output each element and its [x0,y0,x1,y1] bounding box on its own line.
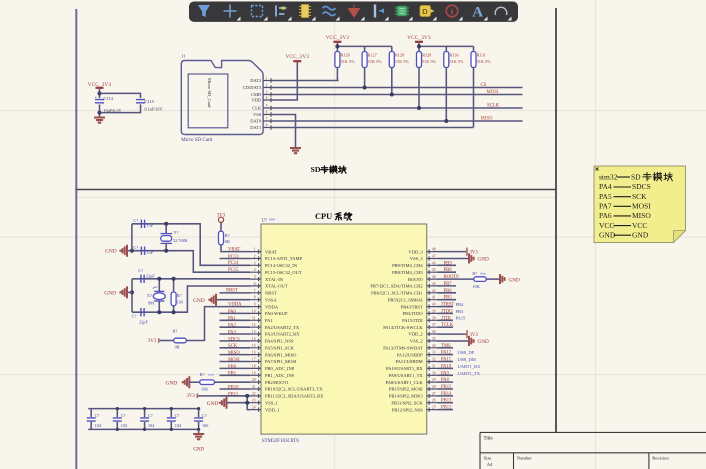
wire VDD_2 pin36 to 3V3 [438,333,467,335]
wire stub net TCLK [438,326,454,328]
svg-text:34: 34 [432,344,436,348]
svg-text:4: 4 [254,268,256,272]
wire stub net PB9 [438,264,457,266]
svg-text:VSS: VSS [253,112,262,117]
svg-text:PC14: PC14 [228,261,239,266]
toolbar icon D-box (yellow) [420,6,431,17]
svg-text:C?: C? [133,245,138,250]
wire stub net PB15 [438,388,454,390]
wire X? bottom stem [158,301,160,312]
svg-text:7: 7 [266,117,268,121]
svg-text:XTAL-OUT: XTAL-OUT [265,284,288,289]
toolbar icon info circle [446,5,458,17]
wire BOOT0 to R10K [438,278,474,280]
svg-text:PA3/USART2_RX: PA3/USART2_RX [265,332,300,337]
toolbar icon power port (red arrow) [349,5,360,18]
svg-text:Size: Size [484,456,492,461]
svg-text:VCC: VCC [599,221,614,230]
capacitor C? 104 [87,418,96,421]
capacitor C? 22pF (bottom) [141,308,144,316]
svg-text:16: 16 [252,351,256,355]
svg-text:PB0: PB0 [228,365,237,370]
junction cap4 bottom [170,428,173,431]
svg-text:stm32: stm32 [599,173,618,182]
wire R1M top stem [173,279,175,292]
svg-text:PB5/I2C1_SMBAI: PB5/I2C1_SMBAI [388,297,423,302]
wire 3V3 to VDD_1 pin 24 [198,396,250,410]
wire stub net SCK (pin 15) [220,347,251,349]
power port VCC_3V3 (at C114) [96,87,104,89]
toolbar icon filter funnel [198,5,210,17]
connector J1 micro SD card outline [181,61,263,135]
svg-text:27: 27 [432,392,436,396]
ground at 32.768K osc [120,245,127,257]
svg-text:SCLK: SCLK [487,103,500,108]
svg-text:GND: GND [599,230,616,239]
svg-text:51K 5%: 51K 5% [341,59,355,64]
svg-text:51K 5%: 51K 5% [450,59,464,64]
wire stub net PB12 [438,409,454,411]
capacitor C? 15P (top) [141,220,144,228]
junction cap2 bottom [116,428,119,431]
svg-text:24: 24 [252,406,256,410]
svg-text:PA5/SPI1_SCK: PA5/SPI1_SCK [265,346,295,351]
svg-text:PC15-OSC32_OUT: PC15-OSC32_OUT [265,270,302,275]
svg-text:DAT1: DAT1 [250,125,261,130]
wire R129 bottom to net [418,68,420,109]
junction R130 on signal wire [444,119,448,123]
ground at VSS_3 [469,254,474,264]
junction osc2 gnd node [130,290,134,294]
wire cap3 bottom stem [144,422,146,429]
svg-text:36: 36 [432,330,436,334]
svg-text:1: 1 [266,77,268,81]
svg-text:R129: R129 [422,53,431,58]
svg-text:MOSI: MOSI [632,202,651,211]
wire rail2 top R129-R131 [419,45,474,47]
svg-text:+: + [95,94,98,99]
wire stub net JTDO [438,312,454,314]
svg-text:VBAT: VBAT [265,249,277,254]
svg-text:VCC_3V3: VCC_3V3 [88,82,112,88]
svg-text:10: 10 [252,309,256,313]
junction C114 bottom node [98,111,102,115]
svg-text:44: 44 [432,275,436,279]
svg-text:15: 15 [252,344,256,348]
wire cap3 top stem [144,409,146,417]
wire stub net NRST (pin 7) [220,292,251,294]
wire net SCLK (CLK) [273,107,523,109]
capacitor C115 plates [136,100,145,103]
svg-text:GND: GND [104,290,116,296]
wire to gnd osc1 [128,250,132,252]
wire stub net PA12 [438,354,454,356]
svg-text:6: 6 [254,282,256,286]
svg-text:R128: R128 [395,53,404,58]
sheet border left edge [75,9,77,469]
capacitor C? 104 [113,418,122,421]
svg-text:TCLK: TCLK [441,323,454,328]
wire R131 top stub [473,46,475,51]
svg-text:7: 7 [254,289,256,293]
svg-text:SDCS: SDCS [228,337,240,342]
svg-text:PA5: PA5 [599,192,612,201]
ground under C114 [94,118,105,123]
svg-text:PA10: PA10 [441,364,452,369]
svg-text:SCK: SCK [632,192,647,201]
toolbar icon selection rectangle [252,6,263,17]
svg-text:Micro SD_Card: Micro SD_Card [207,78,212,108]
svg-text:8M: 8M [148,301,154,306]
wire Y? top stem [165,224,167,233]
svg-text:PB1_ADC_IN9: PB1_ADC_IN9 [265,373,295,378]
junction R129 on signal wire [417,106,421,110]
toolbar icon arc [495,7,507,15]
wire stub net PA2 (pin 12) [220,326,251,328]
svg-text:43: 43 [432,282,436,286]
svg-text:MISO: MISO [228,351,240,356]
svg-text:1: 1 [254,248,256,252]
svg-text:C?: C? [133,218,138,223]
junction osc2 top at R1M [172,277,176,281]
sticky note annotation box [594,166,686,243]
svg-text:32.768K: 32.768K [173,238,189,243]
ground under cap bank [193,434,204,439]
svg-text:SDCS: SDCS [632,182,651,191]
svg-text:PB0_ADC_IN8: PB0_ADC_IN8 [265,366,295,371]
svg-text:PB6/I2C1_SCL/TIM4_CH1: PB6/I2C1_SCL/TIM4_CH1 [371,291,423,296]
svg-text:PA13/JTMS-SWDAT: PA13/JTMS-SWDAT [383,346,423,351]
junction cap5 top [197,407,200,410]
wire VSSA pin 8 to ground [217,299,251,301]
svg-text:PA0-WKUP: PA0-WKUP [265,311,288,316]
svg-text:PB5: PB5 [444,296,453,301]
resistor R? 1M body [171,292,176,306]
svg-text:R?: R? [177,293,182,298]
wire R130 top stub [445,46,447,51]
wire cap bank bottom rail [88,428,198,430]
svg-text:PA15/JTDI: PA15/JTDI [402,318,423,323]
svg-text:GND: GND [478,257,489,263]
svg-text:R?: R? [173,329,178,334]
svg-text:C114: C114 [104,96,114,101]
svg-text:37: 37 [432,323,436,327]
svg-text:5: 5 [254,275,256,279]
wire osc1 left vertical [131,224,133,251]
capacitor C114 plates [95,100,104,103]
svg-text:46: 46 [432,261,436,265]
svg-text:C?: C? [138,268,143,273]
svg-text:DAT2: DAT2 [250,78,261,83]
wire cap1 bottom stem [90,422,92,429]
wire VDD_3 pin48 to 3V3 [438,251,467,253]
wire osc1 top to PC14 pin 3 [132,224,250,265]
wire VSS_3 pin47 to gnd [438,258,469,260]
svg-text:BOOT0: BOOT0 [408,277,423,282]
svg-text:PB12/SPI2_NSS: PB12/SPI2_NSS [392,407,423,412]
svg-text:PB9: PB9 [444,261,453,266]
wire VDD to VCC_3V3 [273,62,298,100]
svg-text:R?: R? [225,233,230,238]
svg-text:VSS_1: VSS_1 [265,400,278,405]
junction osc1 bottom at Y? [164,249,168,253]
power port VCC_3V3 (rail 2) [415,41,423,43]
svg-text:PB9/TIM4_CH4: PB9/TIM4_CH4 [392,263,423,268]
svg-text:47: 47 [432,255,436,259]
junction R127 on signal wire [363,86,367,90]
svg-text:C?: C? [132,313,137,318]
svg-text:UART1_TX: UART1_TX [458,371,481,376]
svg-text:VCC_3V3: VCC_3V3 [407,35,431,41]
svg-text:PB8/TIM4_CH3: PB8/TIM4_CH3 [392,270,423,275]
svg-text:VCC: VCC [632,221,647,230]
wire stub net PB1 (pin 19) [220,374,251,376]
toolbar dropdown wedges [237,17,512,21]
power port VCC_3V3 (rail 1) [333,41,341,43]
svg-text:DAT0: DAT0 [250,119,262,124]
svg-text:R?: R? [200,372,205,377]
wire stub net PC13 (pin 2) [220,258,251,260]
wire cap5 bottom stem [198,422,200,429]
junction osc2 top at X? [157,277,161,281]
svg-text:CMD: CMD [251,92,262,97]
section label SD card module CJK chars [321,166,328,173]
svg-text:45: 45 [432,268,436,272]
svg-text:104: 104 [175,423,182,428]
wire stub net PB0 (pin 18) [220,367,251,369]
svg-text:22pF: 22pF [139,320,148,325]
svg-text:VBAT: VBAT [228,247,240,252]
svg-text:GND: GND [478,339,489,345]
svg-text:CPU: CPU [315,212,332,221]
svg-text:51K 5%: 51K 5% [477,59,491,64]
svg-text:JTDO: JTDO [441,309,453,314]
svg-text:PA4/SPI1_NSS: PA4/SPI1_NSS [265,339,294,344]
op-amp U2 STM32F103C8T6 chip body [261,224,427,434]
wire stub net JTDI [438,319,454,321]
wire R130 bottom to net [445,68,447,122]
svg-text:PB15: PB15 [441,385,452,390]
resistor R? 10K (BOOT0) [474,277,486,282]
wire 3V3 to 0R [160,340,174,342]
toolbar icon wire (waves) [323,7,336,16]
svg-text:VDDA: VDDA [265,304,279,309]
svg-text:GND: GND [207,401,219,407]
wire stub net MOSI (pin 17) [220,361,251,363]
svg-text:VDD: VDD [252,98,262,103]
svg-text:3: 3 [254,261,256,265]
svg-text:8: 8 [266,124,268,128]
svg-text:VDD_1: VDD_1 [265,407,279,412]
svg-text:51K 5%: 51K 5% [368,59,382,64]
svg-text:PA7/SPI1_MOSI: PA7/SPI1_MOSI [265,359,297,364]
wire R10K to PB2/BOOT1 pin 20 [215,381,251,383]
wire rail1 top R126-R128 [337,45,391,47]
svg-text:GND: GND [193,298,205,304]
junction at VSS_1 crossing [245,401,249,405]
junction cap3 bottom [143,428,146,431]
svg-text:USB_DM: USB_DM [458,357,476,362]
svg-text:R?: R? [472,271,477,276]
svg-text:15P: 15P [146,223,153,228]
wire stub net PA0 (pin 10) [220,312,251,314]
sheet divider vertical right of CPU area [555,8,557,432]
svg-text:GND: GND [105,249,117,255]
junction cap2 top [116,407,119,410]
svg-text:X?: X? [147,293,152,298]
junction cap4 top [170,407,173,410]
wire stub net SDCS (pin 14) [220,340,251,342]
junction 3V3 corner [245,394,249,398]
svg-text:42: 42 [432,289,436,293]
svg-text:MOSI: MOSI [228,358,240,363]
resistor R131 51K [471,52,476,68]
svg-text:A4: A4 [487,462,493,467]
svg-text:PB4: PB4 [456,302,465,307]
wire VSS to ground [273,115,296,148]
svg-text:104: 104 [148,423,155,428]
capacitor C? 22pF (top) [141,275,144,283]
svg-text:Revision: Revision [652,456,669,461]
wire X? top stem [158,279,160,291]
junction C114 top node [98,91,102,95]
svg-text:R127: R127 [368,53,377,58]
svg-text:104: 104 [95,423,102,428]
wire cap4 bottom stem [170,422,172,429]
wire stub net TMS [438,347,454,349]
wire R128 top stub [391,46,393,51]
toolbar icon part (green IC) [397,6,407,16]
svg-text:PB10/I2C2_SCL/USART3_TX: PB10/I2C2_SCL/USART3_TX [265,387,323,392]
junction cap3 top [143,407,146,410]
svg-text:SD: SD [631,173,641,182]
wire R127 bottom to net [364,68,366,88]
svg-text:PB2/BOOT1: PB2/BOOT1 [265,380,289,385]
svg-text:PB1: PB1 [228,372,237,377]
svg-text:PB8: PB8 [444,268,453,273]
svg-text:29: 29 [432,378,436,382]
svg-text:40: 40 [432,303,436,307]
wire cap1 top stem [90,409,92,417]
svg-text:D: D [422,7,428,16]
svg-text:PB14/SPI2_MISO: PB14/SPI2_MISO [389,394,424,399]
svg-text:TMS: TMS [441,344,451,349]
svg-text:PA15: PA15 [456,316,467,321]
svg-text:38: 38 [432,316,436,320]
toolbar background [189,2,518,22]
svg-text:XTAL-IN: XTAL-IN [265,277,284,282]
svg-text:PB13/SPI2_SCK: PB13/SPI2_SCK [391,400,423,405]
svg-text:3V3: 3V3 [470,250,479,255]
svg-text:PA1: PA1 [265,318,273,323]
wire stub net JTRST [438,306,454,308]
wire stub net PB6 [438,292,457,294]
svg-text:GND: GND [193,448,204,453]
wire stub net MISO (pin 16) [220,354,251,356]
wire R126 top stub [336,46,338,51]
junction rail1 at R126 [335,44,339,48]
svg-text:PA14/JTCK-SWCLK: PA14/JTCK-SWCLK [383,325,423,330]
svg-text:C?: C? [148,413,153,418]
svg-text:R130: R130 [450,53,459,58]
wire DAT2 to R126 [273,80,339,82]
svg-text:JTDI: JTDI [441,316,451,321]
svg-text:23: 23 [252,399,256,403]
toolbar icon component (yellow IC) [301,5,308,18]
title block frame [480,432,706,469]
svg-text:PA2/USART2_TX: PA2/USART2_TX [265,325,300,330]
wire R10K to gnd [486,278,499,280]
wire net MISO (DAT0) [273,120,523,122]
svg-text:22pF: 22pF [146,273,155,278]
svg-text:GND: GND [166,380,178,386]
wire gnd to R10K [189,381,199,383]
wire cap4 top stem [170,409,172,417]
svg-text:18: 18 [252,364,256,368]
svg-text:3V3: 3V3 [187,394,196,399]
svg-text:3V3: 3V3 [148,339,157,344]
svg-text:6: 6 [266,111,268,115]
toolbar icon netlabel flag [374,5,376,18]
svg-text:SCK: SCK [228,344,238,349]
svg-text:PC13-ANTI_TAMP: PC13-ANTI_TAMP [265,256,302,261]
svg-text:10K: 10K [472,284,480,289]
svg-text:39: 39 [432,309,436,313]
svg-text:104: 104 [121,423,128,428]
svg-text:51K 5%: 51K 5% [395,59,409,64]
svg-text:0R: 0R [225,239,230,244]
svg-text:PB6: PB6 [444,289,453,294]
svg-text:2: 2 [254,255,256,259]
wire C115 bottom [100,104,141,112]
capacitor C? 104 [140,418,149,421]
svg-text:PA8/USART1_CLK: PA8/USART1_CLK [385,380,423,385]
wire to gnd osc2 [128,291,133,293]
resistor R128 51K [389,52,394,68]
wire VCC_3V3 to C114 [99,89,101,98]
svg-text:SD: SD [311,165,321,174]
svg-text:PB7/I2C1_SDA/TIM4_CH2: PB7/I2C1_SDA/TIM4_CH2 [370,284,423,289]
svg-text:Number: Number [517,456,533,461]
svg-text:PB4/JTRST: PB4/JTRST [401,304,423,309]
wire cap bank top rail [88,408,198,410]
svg-text:25: 25 [432,406,436,410]
svg-text:22: 22 [252,392,256,396]
resistor R127 51K [362,52,367,68]
svg-text:R131: R131 [477,53,486,58]
wire R128 bottom to net [391,68,393,95]
svg-text:PB12: PB12 [441,406,452,411]
svg-text:CLK: CLK [252,106,262,111]
wire stub net PA10 [438,367,454,369]
wire C114 bottom to ground [99,104,101,116]
svg-text:Title: Title [484,436,494,441]
junction osc2 bottom at X? [157,310,161,314]
wire osc1 bottom to PC15 pin 4 [132,251,250,273]
wire cap5 top stem [198,409,200,417]
wire osc2 bottom to XTAL-OUT pin 6 [132,286,250,312]
svg-text:VCC_3V3: VCC_3V3 [285,54,309,60]
wire R127 top stub [364,46,366,51]
svg-text:PC13: PC13 [228,255,239,260]
junction osc1 gnd node [130,249,134,253]
svg-text:10K: 10K [201,387,209,392]
svg-text:UART1_RX: UART1_RX [458,364,481,369]
wire VCC rail1 stem [336,43,338,47]
ground at BOOT1 resistor [183,376,190,388]
svg-text:C?: C? [95,413,100,418]
wire stub net PA1 (pin 11) [220,319,251,321]
